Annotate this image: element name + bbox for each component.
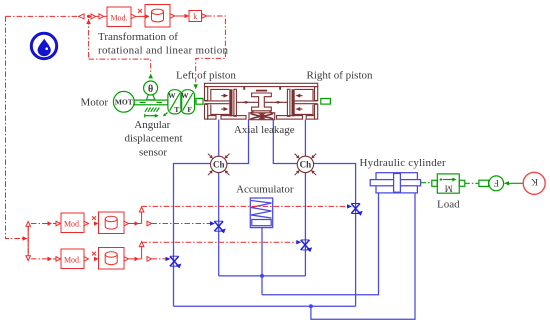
svg-text:Mod.: Mod. [110,14,127,23]
svg-text:sensor: sensor [139,147,167,159]
svg-text:W: W [168,91,176,100]
svg-text:Mod.: Mod. [64,220,81,229]
svg-text:Right of piston: Right of piston [307,70,374,82]
svg-text:Axial leakage: Axial leakage [234,124,295,136]
svg-text:Angular: Angular [134,119,170,131]
svg-text:Accumulator: Accumulator [236,184,294,196]
svg-text:Mod.: Mod. [64,256,81,265]
svg-text:Hydraulic cylinder: Hydraulic cylinder [360,157,447,169]
svg-text:T: T [174,105,179,114]
svg-text:Transformation of: Transformation of [98,31,178,43]
svg-text:F: F [187,105,192,114]
svg-text:M: M [445,183,453,193]
svg-text:θ: θ [148,84,153,95]
svg-text:rotational and linear motion: rotational and linear motion [98,45,229,57]
svg-text:K: K [531,176,538,186]
svg-text:W: W [181,91,189,100]
svg-text:Left of piston: Left of piston [176,70,236,82]
svg-text:displacement: displacement [124,133,182,145]
svg-text:Ch: Ch [300,160,312,170]
svg-text:F: F [494,178,499,188]
svg-text:Ch: Ch [213,160,225,170]
svg-text:MOT: MOT [115,97,133,106]
svg-text:k: k [193,12,197,21]
svg-text:Motor: Motor [81,97,109,109]
svg-text:Load: Load [437,199,460,211]
